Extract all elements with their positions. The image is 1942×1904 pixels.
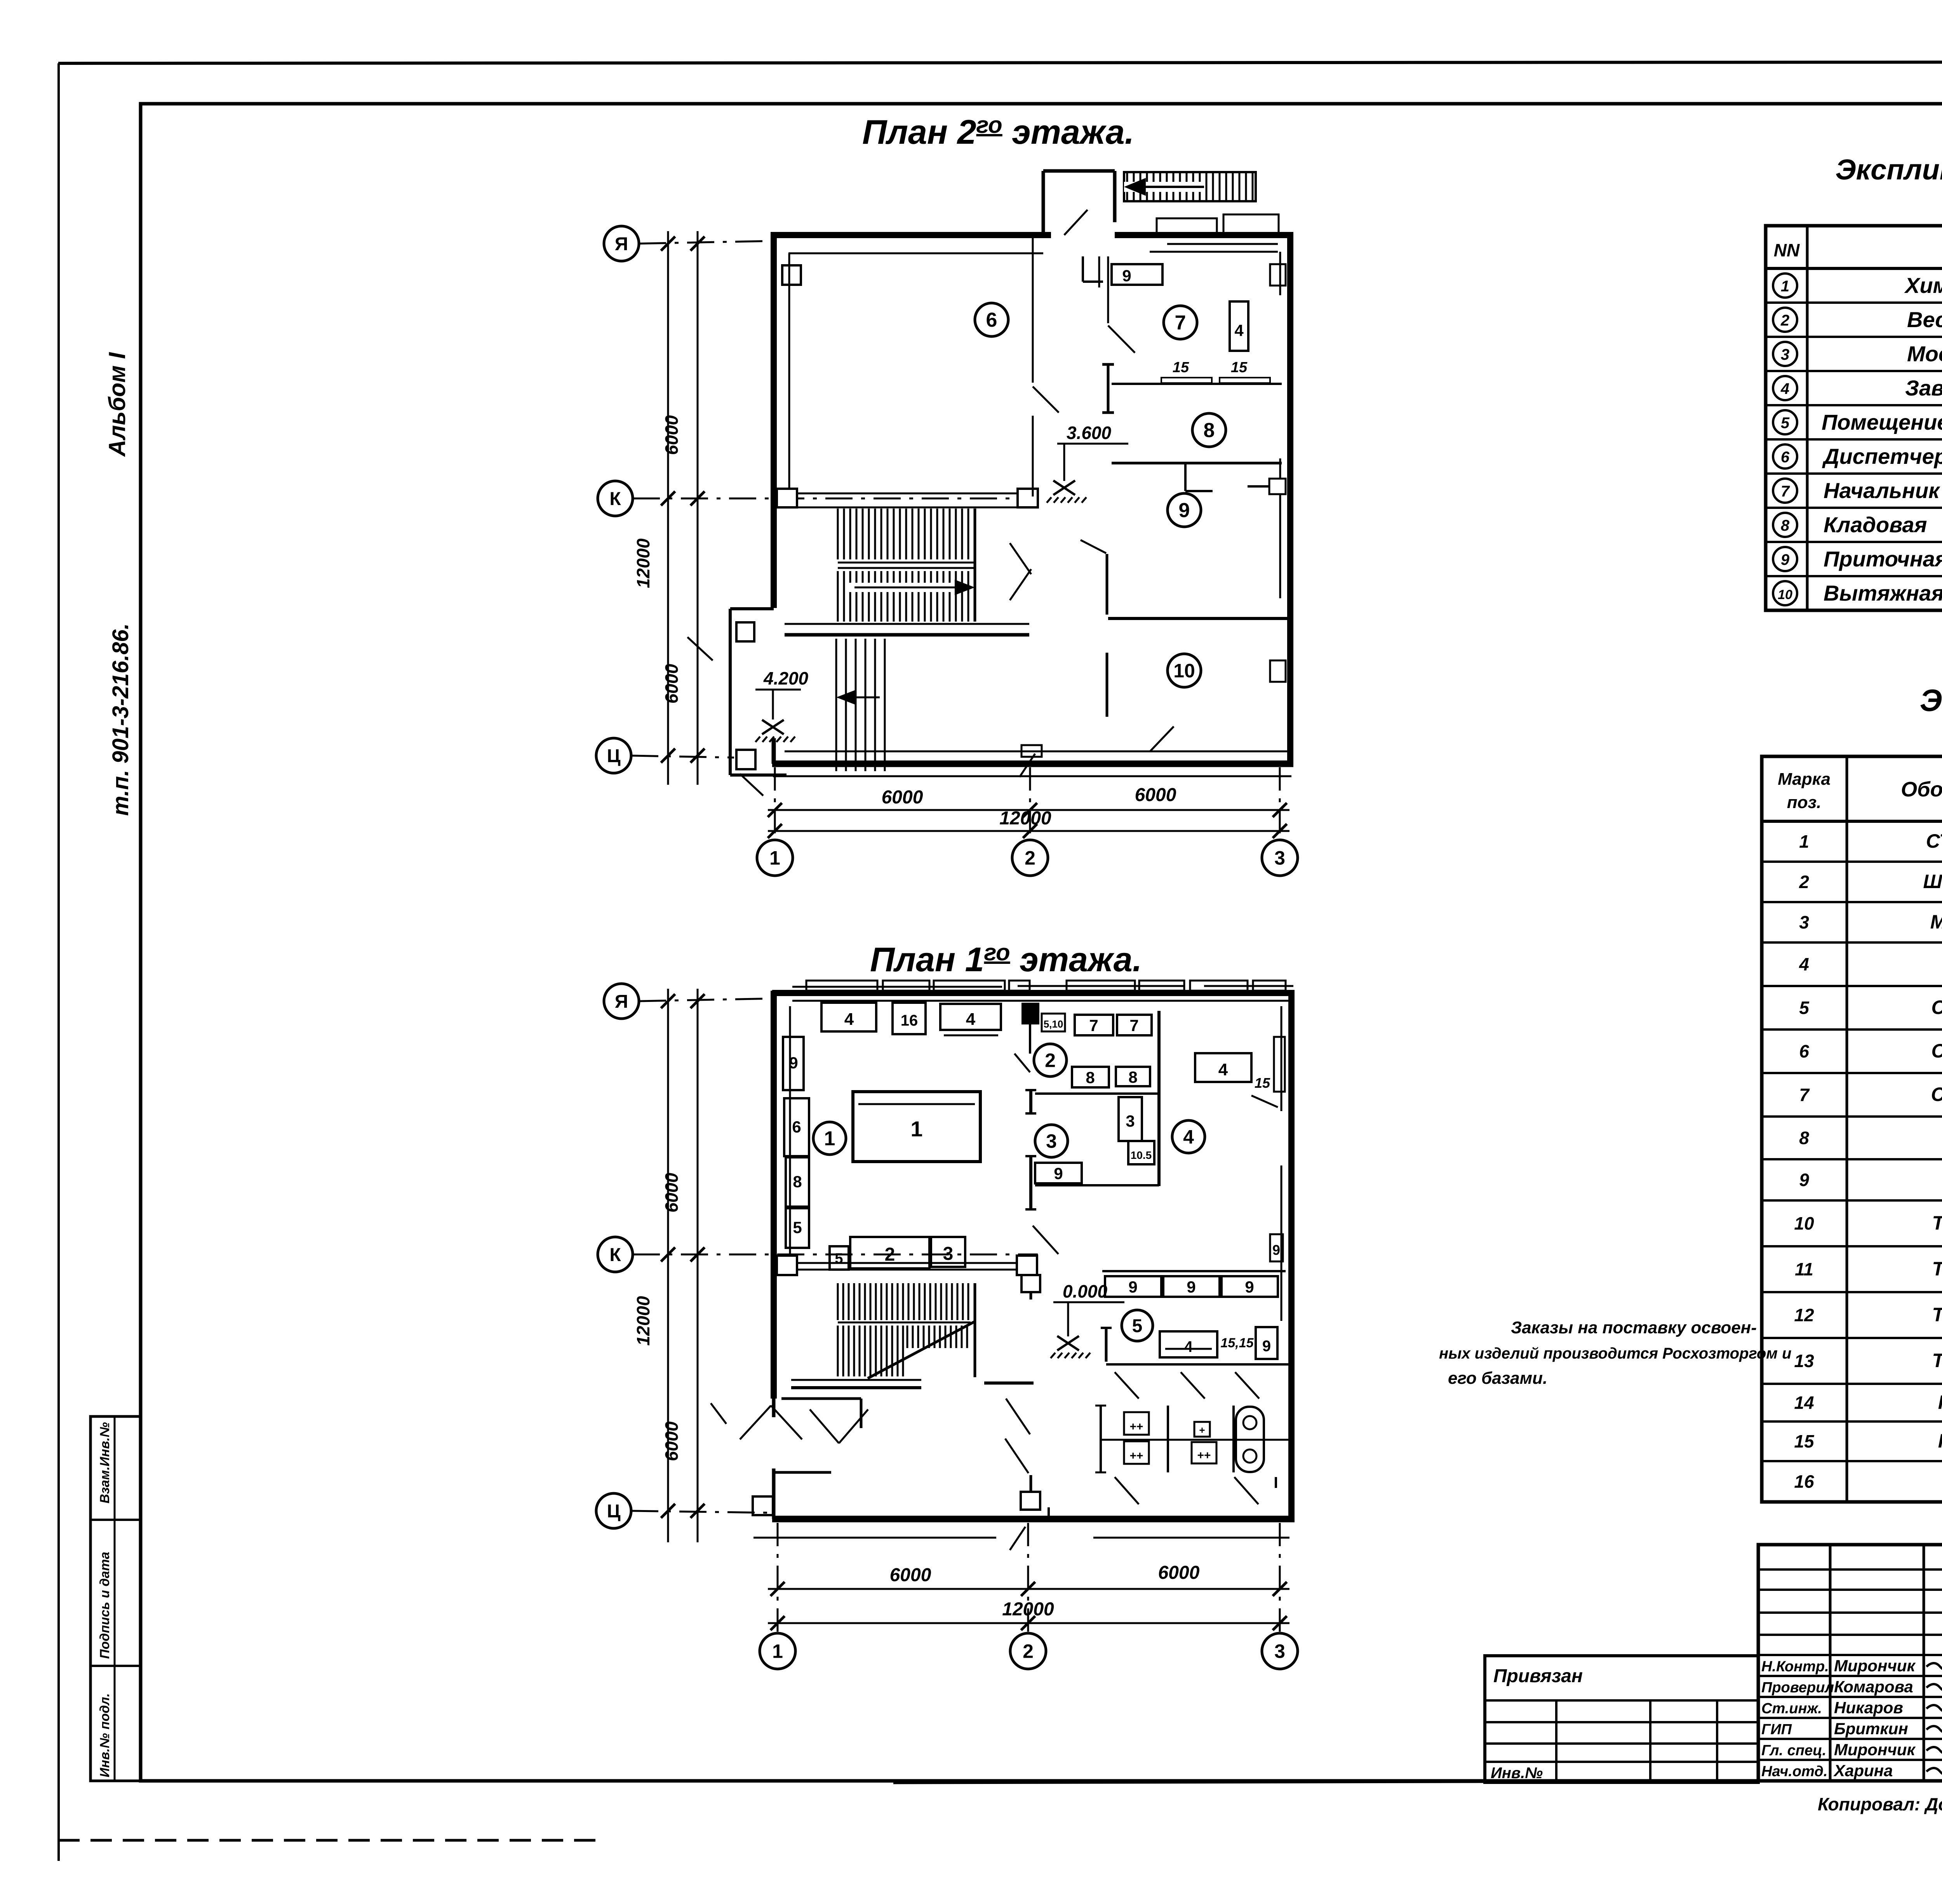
svg-text:Ц: Ц <box>607 746 620 766</box>
svg-text:9: 9 <box>1781 551 1790 568</box>
svg-text:5,10: 5,10 <box>1044 1018 1063 1030</box>
svg-text:2: 2 <box>1023 1641 1034 1662</box>
svg-text:Инв.№ подл.: Инв.№ подл. <box>97 1693 112 1777</box>
svg-text:1: 1 <box>824 1127 835 1150</box>
svg-text:0.000: 0.000 <box>1063 1281 1108 1301</box>
svg-text:7: 7 <box>1175 312 1186 334</box>
svg-text:4: 4 <box>966 1010 976 1029</box>
svg-text:10: 10 <box>1778 587 1792 602</box>
svg-text:10: 10 <box>1173 660 1195 682</box>
svg-text:Весовая: Весовая <box>1907 307 1942 332</box>
svg-text:6000: 6000 <box>1135 785 1176 805</box>
svg-text:4: 4 <box>844 1010 854 1029</box>
svg-text:12000: 12000 <box>633 1296 653 1346</box>
svg-text:Ц: Ц <box>607 1501 620 1522</box>
svg-text:6000: 6000 <box>890 1565 931 1585</box>
svg-text:Марка: Марка <box>1778 770 1831 789</box>
svg-text:Химическая лаборатория: Химическая лаборатория <box>1904 273 1942 298</box>
svg-text:1: 1 <box>1799 831 1809 852</box>
svg-text:12000: 12000 <box>999 808 1051 829</box>
svg-text:16: 16 <box>901 1012 918 1029</box>
svg-text:3: 3 <box>1046 1131 1057 1152</box>
svg-text:9: 9 <box>1122 267 1131 285</box>
svg-text:Заведующий лабораторией.: Заведующий лабораторией. <box>1905 376 1942 400</box>
svg-text:ТВ-2: ТВ-2 <box>1932 1258 1942 1280</box>
svg-text:3.600: 3.600 <box>1067 423 1112 443</box>
svg-text:Я: Я <box>615 234 628 254</box>
svg-text:П-2: П-2 <box>1938 1430 1942 1452</box>
svg-text:ТВ-4: ТВ-4 <box>1932 1350 1942 1371</box>
svg-text:Кладовая: Кладовая <box>1824 512 1927 537</box>
svg-text:Экспликация мебели.: Экспликация мебели. <box>1920 683 1942 718</box>
svg-text:14: 14 <box>1794 1393 1814 1413</box>
svg-text:4: 4 <box>1780 380 1789 397</box>
svg-text:Мирончик: Мирончик <box>1834 1657 1916 1675</box>
svg-text:ТВ-3: ТВ-3 <box>1932 1304 1942 1326</box>
svg-text:4: 4 <box>1799 954 1809 974</box>
svg-text:Помещение для хранения реак: Помещение для хранения реактивов. <box>1822 410 1942 434</box>
svg-text:4: 4 <box>1234 321 1244 340</box>
svg-text:6000: 6000 <box>1158 1563 1200 1583</box>
svg-text:2: 2 <box>1780 312 1789 329</box>
svg-text:4: 4 <box>1184 1338 1193 1355</box>
svg-text:8: 8 <box>1128 1068 1137 1086</box>
svg-text:4.200: 4.200 <box>763 668 809 688</box>
svg-text:+: + <box>1199 1424 1205 1436</box>
svg-text:Никаров: Никаров <box>1834 1698 1903 1717</box>
svg-text:Комарова: Комарова <box>1834 1678 1913 1696</box>
svg-text:5: 5 <box>1799 998 1810 1018</box>
svg-text:8: 8 <box>1204 419 1215 442</box>
svg-text:12000: 12000 <box>1002 1599 1054 1620</box>
svg-text:3: 3 <box>1126 1112 1135 1130</box>
svg-text:11: 11 <box>1795 1259 1813 1279</box>
svg-text:МЛ-1: МЛ-1 <box>1930 911 1942 933</box>
svg-text:9: 9 <box>1054 1164 1063 1183</box>
svg-text:6000: 6000 <box>882 787 923 808</box>
svg-text:Н.Контр.: Н.Контр. <box>1761 1658 1829 1675</box>
svg-text:СВ-2: СВ-2 <box>1931 1084 1942 1105</box>
svg-text:2: 2 <box>885 1244 895 1265</box>
svg-text:К: К <box>609 1245 621 1265</box>
svg-text:15: 15 <box>1794 1431 1815 1451</box>
svg-text:Заказы на поставку освоен-: Заказы на поставку освоен- <box>1511 1318 1757 1337</box>
svg-text:1: 1 <box>910 1117 922 1141</box>
svg-text:6: 6 <box>986 309 997 331</box>
svg-text:9: 9 <box>1187 1278 1195 1296</box>
svg-text:8: 8 <box>1086 1068 1095 1087</box>
svg-text:16: 16 <box>1794 1472 1814 1492</box>
svg-text:ШВ-23: ШВ-23 <box>1923 871 1942 892</box>
svg-text:К: К <box>609 489 621 509</box>
svg-text:7: 7 <box>1129 1016 1138 1035</box>
svg-text:6000: 6000 <box>661 1421 682 1461</box>
svg-text:8: 8 <box>793 1172 802 1191</box>
svg-text:3: 3 <box>1274 1641 1285 1662</box>
svg-text:12000: 12000 <box>633 538 653 588</box>
svg-text:1: 1 <box>1781 278 1789 295</box>
svg-text:15: 15 <box>1255 1075 1270 1091</box>
svg-text:6: 6 <box>1799 1041 1809 1061</box>
svg-text:8: 8 <box>1781 517 1790 534</box>
svg-text:Начальник станции: Начальник станции <box>1824 478 1942 503</box>
svg-text:5: 5 <box>1132 1316 1143 1336</box>
svg-text:5: 5 <box>1781 415 1790 432</box>
svg-text:9: 9 <box>1799 1170 1809 1190</box>
svg-text:его базами.: его базами. <box>1448 1369 1547 1388</box>
svg-text:Проверил: Проверил <box>1761 1679 1834 1696</box>
svg-text:2: 2 <box>1045 1050 1056 1071</box>
svg-text:Харина: Харина <box>1833 1761 1893 1780</box>
svg-text:6000: 6000 <box>661 664 682 704</box>
svg-text:10.5: 10.5 <box>1131 1149 1152 1161</box>
svg-text:7: 7 <box>1781 483 1790 500</box>
svg-text:13: 13 <box>1794 1351 1814 1371</box>
svg-text:СЛ-1: СЛ-1 <box>1932 996 1942 1018</box>
svg-text:ных изделий производится Росхо: ных изделий производится Росхозторгом и <box>1439 1345 1791 1362</box>
svg-text:Взам.Инв.№: Взам.Инв.№ <box>97 1422 112 1503</box>
svg-text:++: ++ <box>1129 1449 1143 1462</box>
svg-text:Подпись и дата: Подпись и дата <box>97 1552 112 1659</box>
svg-text:Диспетчерский пункт: Диспетчерский пункт <box>1822 444 1942 469</box>
svg-text:3: 3 <box>1799 912 1809 932</box>
svg-text:2: 2 <box>1025 847 1035 869</box>
svg-text:++: ++ <box>1129 1420 1143 1433</box>
svg-text:++: ++ <box>1197 1449 1211 1462</box>
svg-text:5: 5 <box>793 1218 802 1237</box>
svg-text:1: 1 <box>769 847 780 869</box>
svg-text:7: 7 <box>1089 1016 1098 1035</box>
svg-text:Альбом I: Альбом I <box>104 352 130 457</box>
svg-text:Я: Я <box>615 991 628 1012</box>
svg-text:СТХ-4: СТХ-4 <box>1926 830 1942 852</box>
svg-text:6: 6 <box>792 1118 801 1136</box>
svg-text:ТВ-1: ТВ-1 <box>1932 1212 1942 1234</box>
svg-text:поз.: поз. <box>1787 793 1821 812</box>
svg-text:Нач.отд.: Нач.отд. <box>1761 1763 1827 1780</box>
svg-text:9: 9 <box>1262 1338 1271 1355</box>
svg-text:15,15: 15,15 <box>1220 1336 1254 1350</box>
svg-text:Вытяжная венткамера.: Вытяжная венткамера. <box>1824 581 1942 605</box>
svg-text:Привязан: Привязан <box>1493 1666 1583 1686</box>
svg-text:Копировал: Доценко. Дмд-: Копировал: Доценко. Дмд- <box>1818 1794 1942 1814</box>
svg-text:6000: 6000 <box>661 1172 682 1212</box>
svg-text:6000: 6000 <box>661 415 682 455</box>
svg-text:10: 10 <box>1794 1213 1814 1233</box>
svg-text:Моечная: Моечная <box>1907 341 1942 366</box>
svg-text:12: 12 <box>1794 1305 1814 1325</box>
svg-text:8: 8 <box>1799 1128 1809 1148</box>
svg-text:NN: NN <box>1774 240 1800 260</box>
svg-text:П-1: П-1 <box>1938 1392 1942 1413</box>
svg-text:6: 6 <box>1781 449 1790 466</box>
svg-text:9: 9 <box>1128 1278 1137 1296</box>
svg-text:9: 9 <box>1245 1278 1254 1296</box>
svg-text:3: 3 <box>1781 346 1789 363</box>
svg-text:1: 1 <box>772 1641 783 1662</box>
svg-text:7: 7 <box>1799 1085 1810 1105</box>
svg-text:15: 15 <box>1231 359 1248 376</box>
svg-text:Мирончик: Мирончик <box>1834 1740 1916 1759</box>
svg-text:3: 3 <box>943 1244 954 1264</box>
svg-text:Приточная венткамера с возду: Приточная венткамера с воздухозаборной ш… <box>1824 547 1942 571</box>
svg-text:3: 3 <box>1274 847 1285 869</box>
svg-text:Экспликация служебно-лаборато: Экспликация служебно-лабораторных <box>1835 153 1942 186</box>
svg-text:т.п. 901-3-216.86.: т.п. 901-3-216.86. <box>108 623 133 816</box>
svg-text:5: 5 <box>835 1251 843 1267</box>
svg-text:Обозначение: Обозначение <box>1901 778 1942 801</box>
svg-text:2: 2 <box>1799 872 1809 892</box>
svg-text:9: 9 <box>1272 1242 1280 1258</box>
svg-text:Бриткин: Бриткин <box>1834 1719 1908 1738</box>
svg-text:4: 4 <box>1218 1060 1228 1079</box>
svg-text:9: 9 <box>789 1054 798 1072</box>
svg-text:Ст.инж.: Ст.инж. <box>1761 1700 1822 1717</box>
svg-text:СЛ-2: СЛ-2 <box>1932 1040 1942 1062</box>
svg-text:Гл. спец.: Гл. спец. <box>1761 1742 1826 1759</box>
svg-text:ГИП: ГИП <box>1761 1721 1792 1738</box>
svg-text:Инв.№: Инв.№ <box>1491 1765 1543 1782</box>
svg-text:4: 4 <box>1183 1126 1194 1148</box>
svg-text:9: 9 <box>1179 499 1190 522</box>
svg-text:15: 15 <box>1173 359 1189 376</box>
